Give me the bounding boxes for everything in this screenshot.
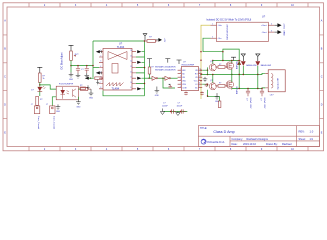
wire green bootstrap diode 1 down (242, 66, 244, 75)
wire green top of TL494 (93, 40, 145, 42)
input flag arrow on TL494 pin row 72.9 (96, 71, 102, 74)
decoupling capacitor C? (169, 85, 173, 88)
frame zone numbers top (44, 4, 295, 7)
svg-text:15: 15 (130, 55, 132, 57)
frame zone numbers bottom (44, 148, 295, 151)
svg-text:C: C (321, 76, 323, 79)
gate driver pin names left (182, 70, 187, 90)
power symbol above gate 2 (165, 59, 170, 63)
wire green LO to sense resistor (208, 90, 220, 101)
svg-text:13: 13 (130, 66, 132, 68)
junction on yellow rail at 81 (200, 80, 201, 81)
svg-text:BAS40-06W: BAS40-06W (246, 64, 257, 67)
ground symbol below bias capacitor 2 (85, 73, 90, 78)
junction Q2 collector (212, 74, 213, 75)
wire green LED to bottom resistor (39, 91, 41, 96)
optocoupler internal transistor (73, 89, 76, 97)
svg-text:GND: GND (215, 101, 220, 103)
junction output cap 2 (261, 88, 262, 89)
resistor R? input termination (36, 96, 39, 105)
ground symbol below bias capacitor 1 (76, 73, 81, 78)
LED D? (37, 86, 45, 91)
svg-text:+15V0: +15V0 (283, 23, 285, 29)
wire green HO to upper transistor (202, 67, 207, 70)
frame zone letters left (4, 20, 6, 135)
svg-text:GND: GND (69, 79, 74, 81)
svg-text:12: 12 (130, 71, 132, 73)
frame zone tick marks bottom (29, 147, 308, 151)
frame zone tick marks right (320, 35, 324, 119)
wire green pot to ground (70, 60, 72, 72)
junction MOSFET drain at rail (231, 60, 232, 61)
capacitor C? output 2 (260, 89, 264, 97)
svg-text:GND: GND (155, 95, 160, 97)
junction on yellow rail at 52 (200, 51, 201, 52)
junction at capacitor 1 tap (77, 65, 78, 66)
svg-text:1k: 1k (43, 78, 45, 80)
svg-text:IR2110SPBF: IR2110SPBF (182, 65, 195, 67)
gnd stub near decoupling cap (169, 84, 171, 85)
frame zone tick marks left (3, 35, 7, 119)
svg-text:100nF: 100nF (177, 105, 183, 107)
junction right rail row 67.6 (144, 67, 145, 68)
wire green bias to TL494 (71, 65, 93, 67)
wire green rail to pin (93, 67, 99, 69)
resistor R? LED series (39, 73, 42, 82)
svg-text:IRF540N: IRF540N (235, 62, 237, 70)
frame zone letters right (321, 20, 323, 135)
DC-DC right pin 4 (268, 31, 274, 33)
power flag +15V0 on +Vout (274, 23, 284, 29)
capacitor C? decoupling 1 (172, 109, 177, 113)
speaker coil (271, 74, 273, 88)
svg-text:TITLE:: TITLE: (200, 127, 208, 130)
input flag arrow on TL494 pin row 51.7 (96, 50, 102, 53)
op-amp IC U? TL494 body (103, 49, 132, 91)
junction VS at diode column (238, 74, 239, 75)
TL494 pin numbers right (130, 50, 132, 89)
ground symbol below opto (76, 100, 81, 105)
speaker LS? body (268, 70, 285, 92)
power symbol above LED resistor (37, 67, 42, 73)
svg-text:SN74AHC1G04DBVR: SN74AHC1G04DBVR (155, 65, 176, 68)
svg-text:1/1: 1/1 (310, 138, 314, 141)
gate driver left pins (178, 70, 182, 88)
wire green Q1 collector to top rail (212, 61, 214, 64)
wire green lower output row (239, 87, 265, 90)
DC-DC module body (217, 22, 269, 41)
small resistor to gnd lower-left of TL494 (80, 87, 86, 90)
svg-text:100nF: 100nF (162, 105, 168, 107)
input flag arrow before series resistor (85, 77, 89, 80)
junction diode 2 to VS rail (257, 74, 258, 75)
junction diode 1 to VS rail (243, 74, 244, 75)
wire green VS rail (201, 73, 266, 74)
junction at LED anode (39, 84, 40, 85)
svg-text:R?: R? (40, 99, 42, 101)
svg-text:TL494: TL494 (117, 45, 125, 49)
junction bootstrap loop at -Vin wire (222, 51, 223, 52)
small gnd symbol lower-left of TL494 (87, 85, 90, 89)
resistor R? gate lower (215, 85, 228, 88)
wire green inverter1 to inverter2 (158, 77, 165, 79)
svg-text:1.0: 1.0 (310, 130, 314, 134)
wire green bootstrap diode 2 down (257, 66, 259, 89)
svg-text:U?: U? (262, 15, 266, 19)
wire green -Vin to driver (203, 38, 223, 52)
capacitor C? bias filter 2 (85, 66, 89, 74)
optocoupler internal LED (60, 87, 69, 99)
svg-text:-Vout: -Vout (261, 31, 266, 34)
junction between inverters (162, 77, 163, 78)
TL494 internal comparator triangles (108, 52, 127, 60)
svg-text:16: 16 (130, 50, 132, 52)
ground symbol below driver (215, 93, 220, 99)
svg-text:+12V: +12V (163, 38, 165, 43)
ground symbol left end of decoupling row (160, 109, 164, 115)
svg-text:IRF540N: IRF540N (235, 87, 237, 95)
series resistor R? into pin row 78.2 (95, 77, 102, 80)
wire green opto collector to pull resistor (78, 88, 80, 90)
svg-text:12: 12 (199, 69, 201, 71)
svg-text:R?: R? (80, 85, 82, 87)
ground symbol right of opto (89, 89, 94, 96)
power symbol above IR2110 (177, 60, 182, 64)
power symbol above bootstrap diode 2 (255, 54, 260, 61)
ground symbol left column (203, 77, 208, 82)
svg-text:PC817X2NIP9F: PC817X2NIP9F (59, 84, 74, 86)
capacitor C? bias filter 1 (76, 66, 80, 74)
svg-text:REV:: REV: (299, 130, 305, 134)
junction at inverter input (148, 77, 149, 78)
output flag arrows on TL494 right pins (137, 50, 141, 90)
TL494 internal oscillator box (112, 64, 118, 74)
wire green inverter2 to IR2110 (171, 77, 178, 79)
sheet border frame outer (3, 3, 324, 151)
svg-text:C: C (4, 76, 6, 79)
svg-text:D: D (4, 104, 6, 107)
svg-text:14: 14 (130, 61, 132, 63)
wire green MOSFET lower drain to VS (231, 75, 233, 82)
svg-text:Date:: Date: (232, 143, 238, 146)
wire green MOSFET upper source to VS (231, 69, 233, 74)
junction right rail row 83.5 (144, 83, 145, 84)
power symbol above potentiometer (69, 45, 74, 51)
svg-text:10: 10 (199, 76, 201, 78)
gate driver right pins (199, 70, 203, 88)
svg-text:Drawn By:: Drawn By: (266, 143, 278, 146)
wire green pull-up to input (149, 64, 151, 79)
transistor Q? upper (209, 64, 216, 71)
power symbol above top junction (143, 34, 147, 41)
wire green R to LED junction (39, 82, 41, 86)
power symbol above pull-up resistor (147, 59, 152, 64)
diode D? freewheel upper (237, 61, 241, 65)
ground symbol below potentiometer (69, 72, 74, 77)
svg-text:COM: COM (182, 87, 187, 89)
junction VS at 207.5 (207, 74, 208, 75)
decoupling cap symbol below IR2110 right (200, 92, 204, 96)
svg-text:Class D Amp: Class D Amp (213, 130, 234, 134)
capacitor C? decoupling 2 (181, 109, 186, 113)
junction decoupling row at cap2 (180, 111, 181, 112)
svg-text:RV?: RV? (75, 54, 79, 56)
ground symbol mid decoupling row (176, 112, 180, 116)
wire green bottom of TL494 (103, 91, 145, 96)
junction on yellow rail at 60 (200, 59, 201, 60)
resistor R? top feed (145, 40, 158, 43)
power flag +12V at top right of TL494 (156, 38, 165, 43)
wire green left column upper (207, 70, 209, 74)
junction lower row at diode column (238, 88, 239, 89)
junction base column upper (207, 69, 208, 70)
optocoupler U? body (56, 86, 78, 100)
svg-text:R?: R? (152, 67, 154, 69)
transistor Q? lower (209, 83, 216, 90)
svg-text:KiCad E.D.A.: KiCad E.D.A. (207, 140, 225, 144)
KiCad logo (201, 139, 206, 144)
svg-text:Conn_Coaxial: Conn_Coaxial (37, 116, 39, 130)
junction decoupling row at cap1 (170, 111, 171, 112)
junction base column lower (207, 83, 208, 84)
DC-DC pin numbers (212, 24, 272, 39)
svg-text:D: D (321, 104, 323, 107)
svg-text:MEV1S0515SC: MEV1S0515SC (227, 24, 229, 40)
junction on TL494 left rail (92, 65, 93, 66)
DC-DC left pin 2 (211, 37, 217, 39)
svg-text:+Vin: +Vin (218, 25, 223, 27)
svg-text:GND: GND (56, 111, 61, 113)
wire green left rail of TL494 (92, 41, 94, 78)
junction top rail to diode (238, 60, 239, 61)
TL494 pin numbers left (100, 50, 101, 89)
ground symbol below gate 1 (155, 87, 160, 94)
gate driver pin names right (194, 70, 199, 90)
resistor R? sense lower (218, 101, 221, 108)
IR2110 pin numbers right (199, 69, 201, 89)
wire green MOSFET drain to top rail (231, 61, 233, 63)
svg-text:GND0: GND0 (283, 30, 285, 35)
speaker left pins (265, 73, 268, 88)
svg-text:GND: GND (89, 98, 94, 100)
inverter gate 1 (152, 76, 158, 80)
wire green right rail of TL494 (144, 41, 146, 96)
wire yellow +Vin rail (201, 25, 211, 99)
wire green decoupling row below IR2110 (164, 111, 188, 113)
capacitor C? output 1 (246, 89, 250, 97)
wire green opto emitter down (77, 97, 79, 100)
svg-text:BAS40-06W: BAS40-06W (261, 64, 272, 67)
power symbol near MOSFET rail (231, 57, 236, 60)
resistor R? opto pull (80, 88, 91, 91)
ground symbol near connector J? (56, 104, 61, 109)
TL494 internal sawtooth (106, 83, 124, 87)
junction at LO branch (207, 95, 208, 96)
wire green junction to resistor (89, 77, 94, 79)
diode D? bootstrap 1 (241, 61, 245, 66)
junction Q1 collector (212, 60, 213, 61)
sheet border frame inner (7, 7, 320, 147)
wire green links TL494 right pins to rail (136, 52, 145, 89)
resistor R? inverter pull-up (148, 67, 151, 74)
svg-text:Speaker 8R: Speaker 8R (277, 78, 280, 90)
svg-text:2019.10.10: 2019.10.10 (243, 142, 257, 146)
svg-text:J?: J? (31, 104, 33, 106)
svg-text:Sheet:: Sheet: (299, 138, 307, 141)
wire green opto cathode to connector 2 (52, 97, 56, 106)
gate driver U? body (181, 67, 198, 91)
resistor R? gate upper (215, 66, 228, 69)
MOSFET Q? lower (226, 80, 233, 90)
svg-text:J?: J? (46, 104, 48, 106)
title block outline (198, 126, 319, 147)
connector J? audio in left (34, 106, 39, 114)
connector J? audio in right (50, 106, 55, 114)
junction at pot tap (70, 65, 71, 66)
TL494 left pins (99, 52, 103, 89)
wire green LED junction to optocoupler anode (40, 85, 56, 89)
diode D? bootstrap 2 (256, 61, 260, 66)
junction at capacitor 2 tap (86, 65, 87, 66)
wire green top rail (213, 60, 239, 62)
wire green LO to lower transistor (202, 84, 207, 86)
svg-text:DC Bias Adjust: DC Bias Adjust (59, 52, 63, 69)
svg-text:TL494: TL494 (112, 86, 120, 90)
svg-text:10: 10 (130, 82, 132, 84)
DC-DC left pin 1 (211, 24, 217, 26)
potentiometer RV? (70, 51, 76, 60)
svg-text:SN74AHC1G04DBVR: SN74AHC1G04DBVR (155, 68, 176, 71)
power symbol above bootstrap diode 1 (241, 54, 246, 61)
wire green upper diode to VS rail (238, 61, 240, 89)
junction at series resistor (90, 77, 91, 78)
MOSFET Q? upper (226, 61, 233, 71)
svg-text:11: 11 (130, 77, 132, 79)
svg-text:Company:: Company: (232, 138, 244, 141)
capacitor C? mid column (205, 84, 209, 87)
svg-text:+Vout: +Vout (261, 24, 267, 27)
wire green branch down to decoupling (163, 78, 175, 88)
wire green bootstrap top loop (223, 49, 239, 60)
svg-text:Conn_Coaxial: Conn_Coaxial (52, 116, 54, 130)
svg-text:680nF 100V: 680nF 100V (249, 98, 251, 110)
svg-text:Isolated DC-DC 5V Wide To 15V0: Isolated DC-DC 5V Wide To 15V0 (PSU) (206, 19, 251, 22)
svg-text:680nF 100V: 680nF 100V (263, 98, 265, 110)
svg-text:Rachael: Rachael (282, 142, 292, 146)
frame zone tick marks top (29, 3, 308, 7)
svg-text:Rachael's Designs: Rachael's Designs (247, 137, 269, 141)
junction VS at MOSFET source (231, 74, 232, 75)
svg-text:GND: GND (76, 106, 81, 108)
decoupling cap symbol below IR2110 left (184, 92, 188, 96)
TL494 right pins (132, 52, 136, 89)
inverter gate 2 (165, 76, 171, 80)
junction at top resistor (144, 40, 145, 41)
wire green lower source row (232, 87, 239, 89)
junction bootstrap loop left (222, 60, 223, 61)
junction output cap 1 (247, 88, 248, 89)
IR2110 pin numbers left (180, 69, 181, 89)
junction lower left (200, 74, 201, 75)
DC-DC right pin 3 (268, 24, 274, 26)
wire green rail to inverter 1 (145, 77, 152, 79)
power flag GND0 on -Vout (274, 30, 284, 36)
small gnd symbol under pin row 78 (96, 80, 99, 85)
junction speaker feed (257, 88, 258, 89)
wire green Q2 collector to VS rail (212, 75, 214, 83)
junction on yellow rail at 70 (200, 69, 201, 70)
